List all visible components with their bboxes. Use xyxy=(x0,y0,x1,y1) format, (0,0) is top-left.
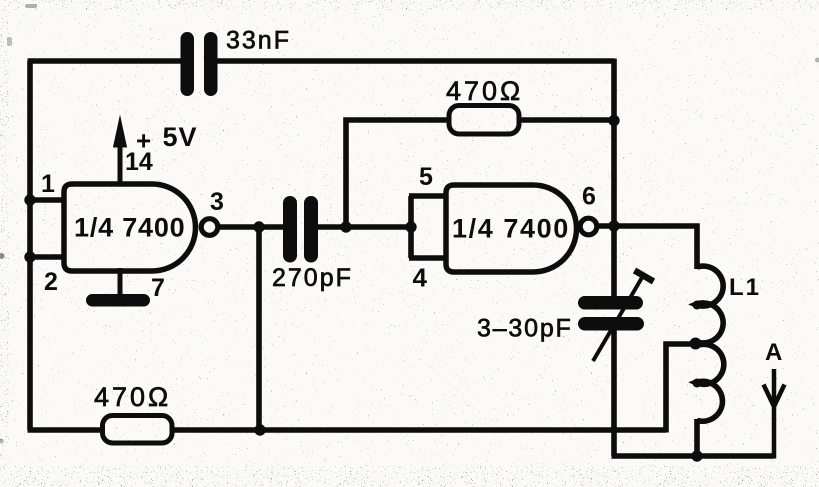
+5V supply arrow shaft xyxy=(118,138,123,184)
svg-text:5V: 5V xyxy=(163,122,198,152)
wire: gate2 output to right rail xyxy=(597,223,614,229)
svg-text:3: 3 xyxy=(210,188,224,216)
wire: left vertical rail and bottom-left feedback wire xyxy=(27,61,33,430)
svg-text:4: 4 xyxy=(413,263,428,293)
trimmer capacitor 3-30pF top plate xyxy=(578,296,643,310)
node: coil bottom rail dot xyxy=(691,450,702,461)
wire: pin3 node vertical drop to bottom wire xyxy=(256,224,262,430)
antenna lead wire xyxy=(772,369,777,459)
ground bar symbol xyxy=(86,294,150,307)
svg-text:1/4 7400: 1/4 7400 xyxy=(74,213,186,243)
svg-text:470Ω: 470Ω xyxy=(94,382,171,412)
wire: top rail right of 33nF to right rail top xyxy=(216,58,614,64)
wire: right rail to coil top xyxy=(612,226,697,269)
capacitor 270pF right plate xyxy=(304,196,318,263)
+5V supply arrowhead xyxy=(113,115,127,148)
wire: right rail trimmer bottom to bottom-right rail xyxy=(611,330,617,456)
NAND gate U1b output bubble pin 6 xyxy=(580,218,597,235)
scan speckle band (left edge) xyxy=(0,10,9,466)
svg-text:3–30pF: 3–30pF xyxy=(477,315,573,343)
NAND gate U1a output bubble pin 3 xyxy=(201,219,218,236)
wire: gate2 pin 4 stub xyxy=(409,255,447,261)
scan artifact marks xyxy=(0,253,5,259)
node: gate2 output right rail dot xyxy=(608,220,619,231)
node: top resistor to right rail dot xyxy=(608,115,619,126)
svg-text:+: + xyxy=(136,126,151,156)
wire: branch up from 270pF node to top resistor xyxy=(346,120,449,224)
wire: top rail left of 33nF xyxy=(28,58,183,64)
wire: gate1 output to 270pF xyxy=(219,224,285,230)
inductor L1 lower winding xyxy=(696,344,724,421)
node: pin2 junction dot xyxy=(24,251,35,262)
svg-text:A: A xyxy=(765,339,782,366)
ground pin 7 stub xyxy=(118,268,123,296)
svg-text:1: 1 xyxy=(41,170,55,198)
NAND gate U1b body 1/4 7400 xyxy=(446,185,577,272)
antenna arrowhead xyxy=(764,385,785,407)
capacitor 33nF right plate xyxy=(204,32,218,96)
wire: gate2 input bracket vertical xyxy=(408,196,414,258)
inductor L1 winding joint filler (lower) xyxy=(693,379,702,388)
svg-text:7: 7 xyxy=(151,274,165,302)
node: pin3 output junction dot xyxy=(253,221,264,232)
svg-text:2: 2 xyxy=(44,268,58,296)
inductor L1 winding joint filler (upper) xyxy=(693,301,702,310)
node: gate2 input bracket dot xyxy=(405,221,416,232)
wire: coil bottom to bottom-right rail xyxy=(694,419,700,456)
svg-text:6: 6 xyxy=(582,183,596,211)
trimmer adjustment arrow T-bar xyxy=(635,271,654,282)
node: coil tap dot xyxy=(690,338,702,350)
resistor 470 ohm (bottom) body xyxy=(103,416,173,444)
resistor 470 ohm (top) body xyxy=(449,106,519,135)
wire: bottom feedback wire left segment xyxy=(28,427,104,433)
node: pin1 junction dot xyxy=(24,194,35,205)
svg-text:1/4 7400: 1/4 7400 xyxy=(452,214,570,244)
wire: bottom feedback wire from resistor to tap riser xyxy=(171,427,666,433)
wire: gate2 pin 5 stub xyxy=(409,193,447,199)
svg-text:33nF: 33nF xyxy=(226,27,291,55)
capacitor 33nF left plate xyxy=(181,32,195,96)
node: bottom feedback / resistor dot xyxy=(254,424,265,435)
svg-text:270pF: 270pF xyxy=(272,264,353,292)
wire: top resistor to right rail xyxy=(519,117,614,123)
wire: right vertical rail down to trimmer top xyxy=(611,59,617,298)
svg-text:5: 5 xyxy=(419,163,433,191)
svg-text:470Ω: 470Ω xyxy=(446,76,523,106)
wire: 270pF to gate2 input bracket xyxy=(317,224,412,230)
trimmer capacitor 3-30pF bottom plate xyxy=(578,317,644,331)
wire: bottom-right horizontal to antenna corner xyxy=(612,453,775,459)
wire: tap riser up to coil tap xyxy=(666,344,694,433)
wire: pin 2 input stub xyxy=(30,254,66,260)
inductor L1 upper winding xyxy=(696,266,724,343)
wire: pin 1 input stub xyxy=(30,197,66,203)
capacitor 270pF left plate xyxy=(283,196,297,263)
scan speckle band (top edge) xyxy=(0,0,819,10)
node: 270pF / top resistor branch dot xyxy=(340,221,351,232)
NAND gate U1a body 1/4 7400 xyxy=(64,184,196,271)
scan speckle band (bottom edge) xyxy=(0,466,819,487)
trimmer adjustment arrow shaft xyxy=(593,275,644,361)
svg-text:L1: L1 xyxy=(729,274,761,301)
